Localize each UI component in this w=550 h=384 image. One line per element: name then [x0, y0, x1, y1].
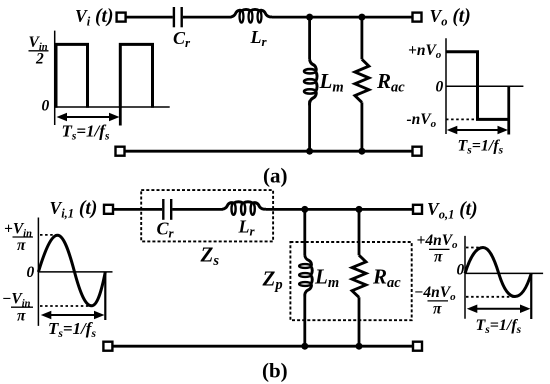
node: top junction at Lm [306, 14, 313, 21]
node: top junction at Rac [358, 14, 365, 21]
output terminal square Vo,1(t) [413, 205, 422, 214]
bottom-right terminal square (b) [413, 342, 422, 351]
svg-text:2: 2 [35, 51, 44, 68]
input waveform (b): sine wave [38, 235, 105, 305]
svg-text:0: 0 [457, 262, 465, 279]
svg-text:+nVo: +nVo [408, 42, 442, 61]
node: top junction at Rac (b) [356, 206, 363, 213]
label Vin/2 fraction [29, 34, 49, 68]
svg-text:Lr: Lr [238, 217, 256, 239]
output waveform (b): dotted peak level [466, 247, 483, 249]
svg-text:Cr: Cr [173, 28, 191, 50]
label -4nVo/pi [414, 284, 456, 318]
wire: Lm branch vertical [308, 17, 311, 151]
wire: inductor Lr to output terminal (b) [266, 208, 413, 211]
label +Vin/pi [4, 221, 33, 255]
capacitor Cr (b) right plate [170, 199, 172, 220]
svg-text:Vi,1 (t): Vi,1 (t) [50, 198, 98, 221]
svg-text:-nVo: -nVo [407, 111, 437, 130]
svg-text:π: π [434, 249, 443, 266]
input terminal square Vi(t) [117, 13, 126, 22]
period arrow (output waveform a) [447, 126, 508, 135]
output waveform (b): period tick [530, 273, 532, 319]
node: top junction at Lm (b) [301, 206, 308, 213]
svg-text:Lm: Lm [319, 69, 344, 96]
svg-text:Vo,1 (t): Vo,1 (t) [427, 199, 478, 222]
wire: input terminal to capacitor [127, 16, 173, 19]
output waveform (b): axis [465, 236, 543, 319]
node: bottom junction at Rac (b) [356, 343, 363, 350]
svg-text:Ts=1/fs: Ts=1/fs [62, 122, 110, 143]
input waveform (a): axis [55, 31, 170, 125]
output waveform (b): sine wave [465, 248, 531, 297]
label -Vin/pi [2, 291, 33, 325]
resistor Rac (a) [355, 59, 369, 102]
svg-text:Vo (t): Vo (t) [430, 6, 471, 29]
output waveform (a): period tick [507, 86, 510, 134]
input waveform (b): dotted peak level [40, 234, 58, 236]
bottom-left terminal square (a) [116, 147, 125, 156]
svg-text:Ts=1/fs: Ts=1/fs [476, 317, 522, 336]
output terminal square Vo(t) [413, 13, 422, 22]
input terminal square Vi,1(t) [104, 205, 113, 214]
bottom-left terminal square (b) [103, 342, 112, 351]
svg-text:Ts=1/fs: Ts=1/fs [48, 319, 96, 340]
node: bottom junction at Lm (a) [306, 148, 313, 155]
capacitor Cr (a) right plate [180, 7, 182, 27]
wire: Rac branch vertical (b) [358, 209, 361, 346]
output waveform (a): dotted level -nVo [446, 118, 476, 120]
resistor Rac (b) [352, 255, 366, 297]
wire: inductor Lr to output terminal [272, 16, 413, 19]
inductor Lr (a) [231, 9, 272, 22]
svg-text:π: π [433, 301, 442, 318]
input waveform (a): period tick [119, 107, 122, 126]
wire: Lm branch vertical (b) [303, 209, 306, 346]
bottom-right terminal square (a) [413, 147, 422, 156]
svg-text:π: π [17, 237, 26, 254]
svg-text:Zs: Zs [200, 243, 220, 270]
capacitor Cr (b) left plate [162, 199, 164, 220]
input waveform (b): period tick [104, 272, 106, 320]
bottom wire (a) [126, 150, 413, 153]
period arrow (input waveform b) [41, 311, 105, 320]
inductor Lm (b) [299, 256, 312, 297]
svg-text:(a): (a) [263, 164, 288, 188]
input waveform (b): axis [38, 218, 112, 326]
output waveform (b): dotted trough level [466, 296, 515, 298]
dashed box Zp [290, 242, 411, 320]
svg-text:0: 0 [27, 264, 35, 281]
node: bottom junction at Rac (a) [358, 148, 365, 155]
svg-text:Cr: Cr [157, 219, 175, 241]
bottom wire (b) [113, 345, 413, 348]
svg-text:Lr: Lr [250, 27, 268, 49]
input waveform (b): dotted trough level [40, 305, 92, 307]
wire: capacitor to inductor Lr [183, 16, 232, 19]
svg-text:Rac: Rac [372, 265, 401, 292]
node: bottom junction at Lm (b) [301, 343, 308, 350]
svg-text:Zp: Zp [262, 267, 283, 294]
inductor Lm (a) [304, 60, 317, 106]
svg-text:0: 0 [42, 98, 50, 115]
svg-text:π: π [17, 308, 26, 325]
svg-text:0: 0 [436, 79, 444, 96]
svg-text:Vi (t): Vi (t) [75, 6, 113, 29]
svg-text:(b): (b) [262, 359, 288, 383]
output waveform (a): square wave [446, 52, 509, 120]
input waveform (a): square wave [56, 44, 153, 107]
svg-text:Ts=1/fs: Ts=1/fs [458, 138, 504, 157]
period arrow (output waveform b) [467, 304, 531, 313]
capacitor Cr (a) left plate [173, 7, 175, 27]
wire: Rac branch vertical [360, 17, 363, 151]
svg-text:Lm: Lm [314, 265, 339, 292]
dashed box Zs [141, 190, 273, 241]
svg-text:Rac: Rac [376, 69, 405, 96]
label +4nVo/pi [417, 232, 459, 266]
wire: capacitor to inductor Lr (b) [172, 208, 223, 211]
wire: input terminal to capacitor (b) [114, 208, 163, 211]
period arrow (input waveform a) [57, 113, 120, 122]
output waveform (a): axis [446, 38, 523, 134]
inductor Lr (b) [222, 202, 266, 215]
